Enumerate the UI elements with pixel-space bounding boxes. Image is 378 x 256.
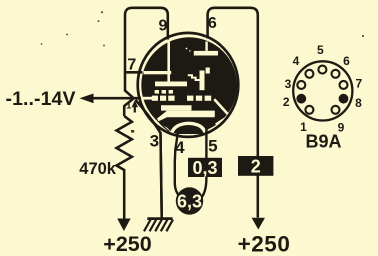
svg-text:+250: +250 [103, 232, 151, 256]
svg-text:6: 6 [343, 54, 350, 68]
svg-text:0,3: 0,3 [192, 158, 217, 178]
svg-text:+250: +250 [238, 232, 291, 256]
svg-text:4: 4 [175, 138, 185, 157]
svg-text:6: 6 [208, 15, 217, 32]
svg-text:4: 4 [293, 54, 300, 68]
svg-text:1: 1 [126, 101, 132, 112]
svg-text:3: 3 [150, 131, 159, 150]
svg-text:5: 5 [208, 137, 217, 156]
svg-text:470k: 470k [79, 160, 117, 178]
svg-text:7: 7 [127, 57, 136, 74]
svg-text:2: 2 [251, 156, 261, 176]
svg-text:3: 3 [285, 77, 292, 91]
svg-text:9: 9 [159, 18, 168, 35]
svg-text:B9A: B9A [305, 132, 341, 152]
svg-text:8: 8 [355, 96, 362, 110]
svg-text:6,3: 6,3 [177, 192, 202, 212]
svg-text:5: 5 [317, 43, 324, 57]
svg-text:7: 7 [355, 77, 362, 91]
svg-text:-1..-14V: -1..-14V [6, 88, 76, 110]
svg-text:2: 2 [283, 95, 290, 109]
